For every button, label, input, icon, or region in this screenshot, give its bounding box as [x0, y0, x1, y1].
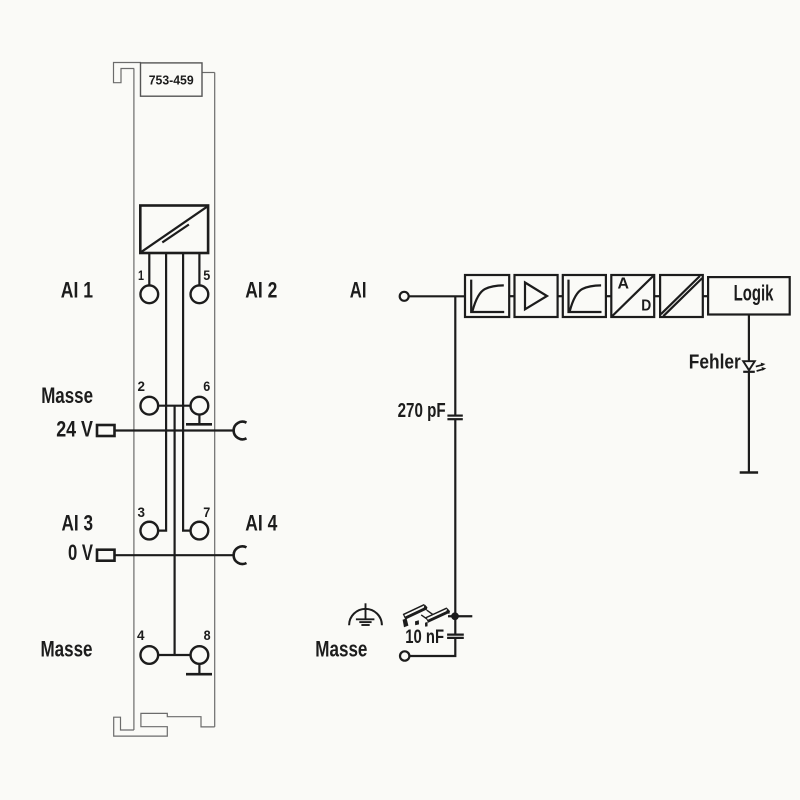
- A/D converter box 4: [611, 275, 654, 317]
- module right connector line: [202, 72, 215, 74]
- wire box2-box3: [558, 295, 563, 297]
- svg-text:Masse: Masse: [41, 383, 93, 408]
- 0V wire: [115, 554, 234, 556]
- svg-text:Logik: Logik: [734, 281, 774, 306]
- svg-text:Masse: Masse: [315, 637, 367, 662]
- svg-text:2: 2: [138, 378, 146, 394]
- svg-text:AI 4: AI 4: [245, 511, 277, 536]
- internal ground stub under terminal 6: [198, 415, 200, 425]
- terminal 3: [140, 522, 158, 540]
- wire terminals 4-8: [158, 654, 191, 656]
- rail far flange bar: [404, 607, 425, 617]
- node stub wire: [448, 615, 472, 617]
- svg-text:AI: AI: [350, 277, 367, 302]
- ground bar (logic): [740, 471, 758, 474]
- center bus wire: [174, 406, 176, 655]
- svg-text:8: 8: [204, 627, 211, 643]
- svg-text:3: 3: [138, 504, 146, 520]
- internal ground stub under terminal 8: [198, 664, 200, 674]
- transformer / isolation block: [140, 206, 208, 254]
- svg-text:Fehler: Fehler: [689, 351, 741, 374]
- rail near flange bar: [427, 610, 448, 620]
- LED Fehler: [743, 361, 755, 370]
- terminal 7: [191, 522, 209, 540]
- earth bars: [356, 618, 375, 620]
- 0V spring contact arc: [234, 546, 247, 564]
- earth symbol arc: [349, 609, 382, 625]
- wire box4-box5: [654, 295, 660, 297]
- LED arrows: [756, 363, 767, 371]
- terminal 2: [140, 397, 158, 415]
- input terminal circle: [400, 292, 409, 301]
- svg-text:753-459: 753-459: [149, 73, 194, 88]
- module outline top-left hook: [114, 63, 142, 83]
- svg-text:Masse: Masse: [41, 637, 93, 662]
- svg-text:AI 3: AI 3: [62, 511, 94, 536]
- DIN rail symbol: [403, 604, 450, 627]
- masse terminal circle: [400, 651, 409, 660]
- terminal 5: [191, 285, 209, 303]
- lead pin1: [148, 253, 150, 286]
- module right body edge: [214, 73, 216, 727]
- svg-text:AI 1: AI 1: [61, 278, 93, 303]
- svg-text:10 nF: 10 nF: [405, 627, 444, 648]
- wire box5-logik: [703, 295, 708, 297]
- earth symbol stem: [365, 603, 367, 618]
- svg-text:D: D: [641, 297, 651, 314]
- 24V square connector: [97, 425, 115, 436]
- capacitor C2 10 nF: [447, 633, 464, 635]
- node junction dot: [451, 612, 459, 620]
- terminal 8: [191, 646, 209, 664]
- 24V spring contact arc: [234, 422, 247, 440]
- svg-text:0 V: 0 V: [68, 540, 93, 565]
- wire terminals 2-6: [158, 405, 191, 407]
- svg-text:6: 6: [203, 378, 210, 394]
- wire LED to ground: [748, 372, 750, 472]
- label box 753-459: [141, 63, 203, 96]
- svg-text:7: 7: [203, 504, 210, 520]
- svg-text:5: 5: [203, 267, 210, 283]
- isolation box 5: [660, 275, 703, 317]
- filter box 3: [563, 275, 606, 317]
- wire logik to LED: [748, 315, 750, 362]
- input wire: [409, 295, 465, 297]
- svg-text:A: A: [618, 275, 630, 292]
- lead inner left wire: [159, 253, 167, 531]
- 0V square connector: [97, 550, 115, 561]
- svg-text:AI 2: AI 2: [245, 278, 277, 303]
- filter box 1: [465, 275, 509, 317]
- wire capacitor to masse terminal: [409, 639, 455, 657]
- module outline bottom foot: [114, 713, 215, 736]
- svg-text:1: 1: [138, 267, 144, 283]
- vertical branch wire from input node: [454, 296, 456, 415]
- svg-text:24 V: 24 V: [56, 416, 93, 441]
- svg-text:4: 4: [137, 627, 145, 643]
- 24V wire: [115, 429, 234, 431]
- Logik box U1: [708, 277, 790, 314]
- wire capacitor to shield node: [454, 420, 456, 634]
- terminal 1: [140, 285, 158, 303]
- amplifier box 2: [515, 275, 558, 317]
- terminal 6: [191, 397, 209, 415]
- rail feet: [403, 618, 409, 627]
- svg-text:270 pF: 270 pF: [398, 399, 446, 422]
- wire box1-box2: [509, 295, 514, 297]
- lead inner right wire: [183, 253, 191, 531]
- capacitor C1 270 pF: [447, 415, 462, 417]
- lead pin5: [198, 253, 200, 286]
- module left body edge: [133, 69, 135, 731]
- terminal 4: [140, 646, 158, 664]
- wire box3-box4: [606, 295, 611, 297]
- rail web: [427, 610, 434, 615]
